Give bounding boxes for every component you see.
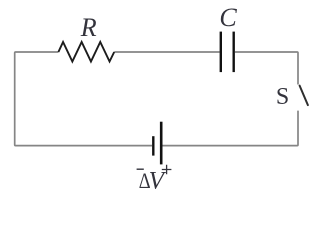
wire: resistor to capacitor left plate	[114, 51, 219, 53]
wire: capacitor right plate to top-right corner, down to switch top contact	[235, 52, 298, 85]
wire: battery left plate to bottom-left corner, up left side, along top to resistor	[15, 52, 152, 146]
svg-text:V: V	[149, 168, 167, 195]
resistor R (zigzag)	[58, 42, 114, 62]
svg-text:R: R	[80, 13, 97, 42]
battery negative plate (short)	[152, 136, 154, 155]
battery positive plate (tall)	[160, 122, 163, 165]
capacitor C left plate	[220, 32, 222, 73]
switch S blade	[300, 86, 308, 106]
battery minus sign	[137, 168, 144, 170]
svg-text:C: C	[219, 3, 237, 32]
svg-text:S: S	[276, 84, 289, 110]
capacitor C right plate	[232, 32, 234, 73]
wire: switch bottom contact down to bottom-right corner, left to battery right plate	[162, 111, 298, 146]
battery plus sign	[162, 165, 172, 175]
